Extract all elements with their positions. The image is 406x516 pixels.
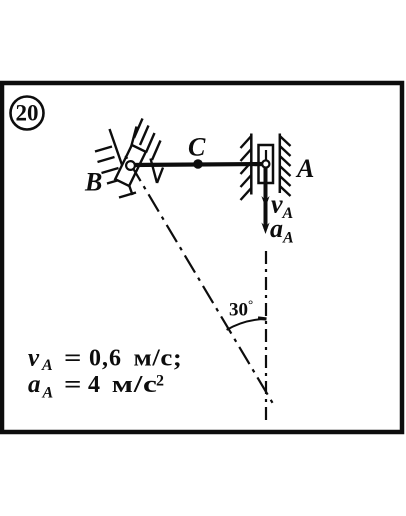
svg-text:A: A bbox=[42, 385, 54, 402]
svg-text:20: 20 bbox=[16, 101, 39, 126]
svg-text:м/с;: м/с; bbox=[134, 344, 183, 371]
svg-text:=: = bbox=[64, 344, 82, 371]
svg-text:=: = bbox=[64, 370, 82, 397]
svg-text:2: 2 bbox=[156, 372, 164, 389]
svg-text:0,6: 0,6 bbox=[89, 346, 122, 372]
svg-text:B: B bbox=[84, 168, 102, 197]
svg-text:A: A bbox=[295, 154, 314, 183]
svg-text:C: C bbox=[188, 133, 206, 162]
svg-text:v: v bbox=[28, 345, 40, 372]
svg-text:a: a bbox=[28, 371, 41, 398]
svg-text:A: A bbox=[41, 357, 53, 374]
svg-text:м/с: м/с bbox=[112, 371, 158, 398]
svg-text:4: 4 bbox=[88, 372, 100, 398]
